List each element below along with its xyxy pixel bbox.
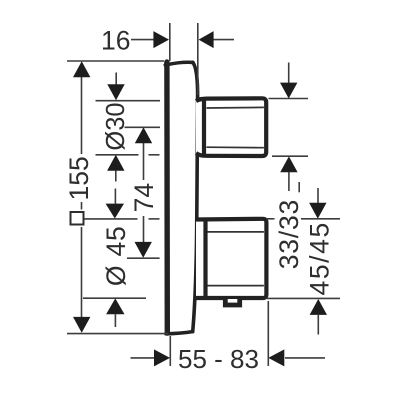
svg-text:74: 74 (129, 183, 159, 212)
svg-text:16: 16 (101, 26, 130, 56)
svg-text:Ø30: Ø30 (102, 102, 130, 150)
svg-text:55 - 83: 55 - 83 (178, 344, 259, 374)
svg-text:45/45: 45/45 (305, 221, 335, 295)
svg-text:155: 155 (64, 156, 94, 200)
svg-text:Ø 45: Ø 45 (101, 225, 131, 286)
svg-text:33/33: 33/33 (274, 199, 304, 269)
